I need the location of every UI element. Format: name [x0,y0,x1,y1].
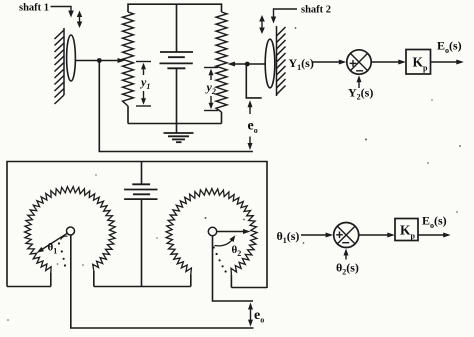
eo bottom down arrow [248,320,253,327]
pot1 terminal left [50,273,52,287]
battery E1 leads [176,4,178,52]
svg-text:shaft 1: shaft 1 [19,3,49,14]
wire theta1 to summer [301,234,330,236]
top supply wire [128,4,222,12]
housing bottom edge right [231,287,267,289]
wire wiper1 to R1 [75,60,122,62]
circular pot P1 track [25,187,116,274]
gain block Kp (top) [406,50,431,75]
resistor R1 track [123,12,134,106]
circular pot P2 track [166,189,257,275]
summing junction U1 [347,50,371,74]
pot2 terminal left [190,275,192,287]
svg-text:Y1(s): Y1(s) [289,56,314,72]
ground symbol [164,133,194,142]
plus sign [350,60,357,67]
pot P1 wiper lead [71,235,254,328]
wall 2 (hatched support) [277,26,286,96]
pot P2 wiper lead [213,236,254,301]
bottom wire R1-R2 [128,123,222,125]
shaft 2 motion double arrow [261,18,263,31]
junction node B [245,62,250,67]
housing bottom edge left [7,286,51,288]
theta1 reference dotted line [58,242,60,244]
R2 bottom lead [221,112,223,124]
battery E2 leads [141,162,143,185]
wire Y1 to summer [312,61,344,63]
theta1 angle arc [61,236,68,239]
eo down arrow [249,137,251,148]
y2 dimension arrows [204,67,218,69]
junction node A [97,58,102,63]
eo terminal wire [246,64,261,98]
eo bottom up arrow [250,305,252,324]
pot1 terminal right [93,271,95,287]
svg-text:θ2(s): θ2(s) [336,261,359,277]
wiper ellipse shaft 2 [265,39,275,88]
y1 dimension arrows [136,61,151,63]
minus sign [356,70,363,72]
wire wiper2 to R2 [230,63,265,65]
shaft 2 pointer [274,9,298,18]
svg-text:Y2(s): Y2(s) [348,86,373,102]
R1 bottom lead [127,106,129,124]
summing junction U2 [334,223,359,248]
gain block Kp (bottom) [395,219,418,241]
plus sign 2 [336,232,343,239]
svg-text:shaft 2: shaft 2 [301,5,331,16]
output wire Ea [431,61,461,63]
resistor R2 track [216,12,227,112]
theta2 reference dotted line [213,246,215,248]
wiper ellipse shaft 1 [67,35,76,81]
shaft 1 motion double arrow [79,14,81,26]
output wire Ea 2 [418,234,448,236]
pot2 terminal right [230,275,232,288]
pot P1 wiper arm [40,233,68,251]
wire summer to Kp 2 [359,234,392,236]
pot P1 wiper pivot [67,227,75,235]
battery E1 plates [160,52,194,68]
eo up arrow [249,103,251,114]
minus sign 2 [342,242,349,244]
wire summer to Kp [371,61,402,63]
shaft 1 pointer [51,7,72,13]
theta2(s) up arrow [345,252,347,260]
theta2 angle arrow [215,238,234,246]
housing bottom edge mid [94,286,191,288]
Y2(s) up arrow [358,79,360,89]
pot P2 wiper arm [217,231,247,233]
wall 1 (hatched support) [55,28,65,104]
svg-text:θ1(s): θ1(s) [277,229,300,245]
housing box outline [7,162,267,289]
battery E2 plates [124,184,157,199]
return wire bottom [99,61,253,152]
pot P2 wiper pivot [208,227,216,235]
